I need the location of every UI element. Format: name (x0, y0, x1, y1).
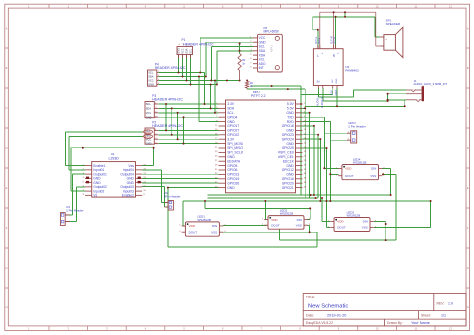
svg-text:GPIO25: GPIO25 (282, 146, 294, 150)
svg-text:HEADER 4PIN-I2C: HEADER 4PIN-I2C (183, 43, 214, 47)
svg-text:WS2812B: WS2812B (353, 161, 367, 165)
svg-text:Enable2: Enable2 (122, 194, 134, 198)
svg-text:G: G (5, 266, 7, 270)
svg-text:L293D: L293D (109, 156, 120, 160)
svg-text:VDD: VDD (189, 224, 196, 228)
svg-text:TITLE:: TITLE: (306, 295, 315, 299)
svg-text:SPEAKER: SPEAKER (386, 22, 401, 26)
svg-text:Vs: Vs (93, 194, 97, 198)
svg-text:VDD: VDD (271, 218, 278, 222)
svg-text:GND: GND (227, 155, 235, 159)
svg-text:AUDIO_R: AUDIO_R (321, 97, 324, 108)
svg-text:AUDIO_JACK_3.5MM_KIT: AUDIO_JACK_3.5MM_KIT (414, 82, 448, 86)
svg-text:HEADER 4PIN-I2C: HEADER 4PIN-I2C (152, 124, 183, 128)
svg-text:HEADER 4PIN-I2C: HEADER 4PIN-I2C (152, 97, 183, 101)
svg-text:B: B (6, 66, 8, 70)
svg-text:SDA: SDA (186, 48, 189, 53)
svg-text:GPIO27: GPIO27 (227, 129, 239, 133)
svg-text:GPIO5: GPIO5 (227, 164, 237, 168)
svg-text:VDD: VDD (345, 167, 352, 171)
svg-text:VSS: VSS (211, 230, 217, 234)
svg-text:WS2812B: WS2812B (197, 218, 211, 222)
svg-text:GPIO22: GPIO22 (227, 133, 239, 137)
svg-text:1.0: 1.0 (448, 301, 453, 305)
svg-text:5.0V: 5.0V (287, 102, 295, 106)
svg-text:GND: GND (286, 129, 294, 133)
svg-text:GND: GND (146, 136, 151, 138)
svg-text:DOUT: DOUT (345, 174, 354, 178)
svg-text:SPI_SCLK: SPI_SCLK (227, 151, 244, 155)
svg-text:GND: GND (227, 120, 235, 124)
svg-text:RXD: RXD (287, 120, 295, 124)
svg-text:GPIO21: GPIO21 (282, 186, 294, 190)
svg-text:VCC: VCC (146, 111, 152, 115)
svg-text:GND: GND (178, 48, 181, 54)
svg-text:DIN: DIN (297, 218, 302, 222)
svg-text:C: C (467, 106, 469, 110)
svg-text:IN: IN (317, 80, 320, 84)
svg-text:3.3V: 3.3V (227, 137, 235, 141)
svg-text:New Schematic: New Schematic (308, 303, 348, 309)
svg-text:E: E (6, 186, 8, 190)
svg-text:GPIO24: GPIO24 (282, 137, 294, 141)
svg-text:WS2812B: WS2812B (347, 214, 361, 218)
svg-text:DOUT: DOUT (337, 226, 346, 230)
svg-text:GND: GND (227, 186, 235, 190)
svg-text:E: E (467, 186, 469, 190)
svg-text:WS2812B: WS2812B (280, 212, 294, 216)
svg-text:#SPI_CE0: #SPI_CE0 (278, 151, 294, 155)
svg-text:DOUT: DOUT (189, 230, 198, 234)
svg-text:1/1: 1/1 (441, 314, 446, 318)
svg-text:EEDATA: EEDATA (227, 159, 241, 163)
svg-text:Your Name: Your Name (411, 321, 430, 325)
svg-text:GPIO12: GPIO12 (282, 168, 294, 172)
svg-text:GND: GND (336, 78, 338, 83)
svg-text:SCL: SCL (227, 111, 234, 115)
svg-text:EECLK: EECLK (283, 159, 295, 163)
svg-text:DOUT: DOUT (271, 223, 280, 227)
svg-text:GND: GND (146, 132, 151, 134)
svg-text:B: B (467, 66, 469, 70)
svg-text:GPIO16: GPIO16 (282, 177, 294, 181)
svg-text:G: G (467, 266, 469, 270)
svg-text:5.0V: 5.0V (287, 107, 295, 111)
svg-text:DIN: DIN (371, 167, 376, 171)
svg-text:A: A (6, 26, 8, 30)
svg-text:GPIO17: GPIO17 (227, 124, 239, 128)
svg-text:SDA: SDA (227, 107, 235, 111)
svg-text:GND: GND (286, 173, 294, 177)
svg-text:Drawn By:: Drawn By: (387, 321, 403, 325)
svg-text:HEADER 4PIN-I2C: HEADER 4PIN-I2C (155, 66, 186, 70)
svg-text:OUT+L: OUT+L (316, 36, 318, 44)
svg-text:H: H (467, 305, 469, 309)
svg-text:GND: GND (148, 83, 154, 87)
svg-text:OUT-L: OUT-L (319, 37, 321, 44)
svg-text:D: D (467, 146, 469, 150)
svg-text:MPU-6050: MPU-6050 (264, 30, 279, 34)
svg-text:MPU: MPU (270, 45, 274, 52)
svg-text:SPI_MISO: SPI_MISO (227, 146, 243, 150)
svg-text:GND: GND (286, 111, 294, 115)
svg-text:GND: GND (146, 142, 152, 146)
svg-text:VCC: VCC (148, 79, 154, 83)
svg-text:SCL: SCL (146, 102, 152, 106)
svg-text:+5V: +5V (332, 79, 334, 83)
svg-text:GPIO20: GPIO20 (282, 181, 294, 185)
svg-text:GPIO26: GPIO26 (227, 181, 239, 185)
svg-text:GPIO13: GPIO13 (227, 173, 239, 177)
svg-text:PiTFT 2.2: PiTFT 2.2 (251, 94, 266, 98)
svg-text:P1: P1 (182, 38, 186, 42)
svg-text:SPI_MOSI: SPI_MOSI (227, 142, 243, 146)
svg-text:2 Pin Header: 2 Pin Header (66, 208, 84, 212)
svg-text:VDD: VDD (337, 220, 344, 224)
svg-text:L: L (317, 54, 319, 58)
svg-text:GND: GND (286, 142, 294, 146)
svg-text:OUT-R: OUT-R (335, 37, 337, 44)
svg-text:INT: INT (259, 66, 264, 70)
svg-text:GPIO19: GPIO19 (227, 177, 239, 181)
svg-text:SDA: SDA (148, 75, 154, 79)
svg-text:GPIO18: GPIO18 (282, 124, 294, 128)
svg-text:GPIO4: GPIO4 (227, 115, 237, 119)
svg-text:SCL: SCL (190, 48, 193, 53)
svg-text:VSS: VSS (296, 223, 302, 227)
svg-text:PAM8403: PAM8403 (345, 69, 359, 73)
svg-text:SDA: SDA (146, 107, 152, 111)
svg-text:2Pin Header: 2Pin Header (164, 194, 181, 198)
svg-text:TXD: TXD (287, 115, 294, 119)
svg-text:Sheet:: Sheet: (421, 314, 431, 318)
svg-text:GND: GND (335, 90, 338, 96)
svg-text:AUDIO_L: AUDIO_L (317, 95, 320, 106)
svg-text:VSS: VSS (362, 226, 368, 230)
svg-text:3.3V: 3.3V (227, 102, 235, 106)
svg-text:SCL: SCL (148, 71, 154, 75)
svg-text:GPIO23: GPIO23 (282, 133, 294, 137)
svg-text:VCC: VCC (182, 48, 185, 53)
svg-text:GND: GND (286, 164, 294, 168)
svg-text:Date:: Date: (306, 314, 314, 318)
svg-text:#SPI_CE1: #SPI_CE1 (278, 155, 294, 159)
svg-text:DIN: DIN (212, 224, 217, 228)
svg-text:C: C (6, 106, 8, 110)
svg-text:VSS: VSS (370, 174, 376, 178)
svg-text:2 Pin Header: 2 Pin Header (348, 125, 366, 129)
svg-text:2019-01-20: 2019-01-20 (327, 314, 346, 318)
svg-text:REV:: REV: (437, 301, 445, 305)
svg-text:OUT+R: OUT+R (332, 36, 334, 44)
svg-text:D: D (6, 146, 8, 150)
svg-text:+5V: +5V (331, 90, 334, 95)
svg-text:H: H (6, 305, 8, 309)
svg-text:GND: GND (146, 115, 152, 119)
svg-text:EasyEDA V5.8.22: EasyEDA V5.8.22 (306, 321, 333, 325)
svg-text:A: A (467, 26, 469, 30)
svg-text:GPIO6: GPIO6 (227, 168, 237, 172)
svg-text:DIN: DIN (363, 220, 368, 224)
